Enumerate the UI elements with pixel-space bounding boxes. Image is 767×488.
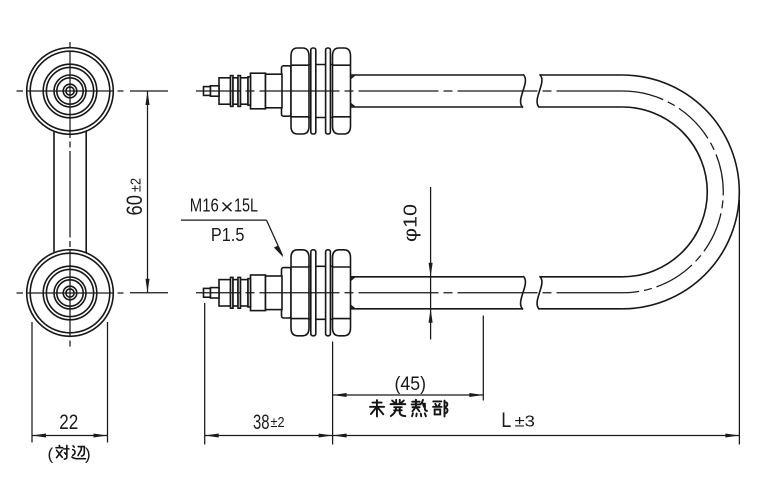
38 dim line: [205, 435, 333, 437]
leader arrow: [274, 246, 284, 258]
svg-text:±2: ±2: [271, 414, 285, 431]
38 arrow right: [319, 433, 333, 437]
tube seen edge-on between the two bosses: [53, 100, 55, 285]
bottom boss: thread inner: [46, 269, 93, 316]
svg-text:M16: M16: [190, 196, 219, 216]
phi10 arrow down: [429, 263, 433, 277]
svg-text:(45): (45): [395, 373, 427, 395]
U-bend outer arc: [622, 75, 739, 309]
bottom tube upper edge (right of break): [540, 276, 623, 278]
top tube upper edge (right of break): [540, 74, 623, 76]
top boss: outer circle: [27, 48, 114, 135]
38 extension left (pin tip): [204, 303, 206, 445]
60 dim arrow up: [145, 91, 149, 105]
kanji NETSU (heat): [412, 400, 427, 416]
22 dim line: [32, 435, 108, 437]
45 extension right: [482, 316, 484, 401]
top tube upper edge (left of break): [351, 74, 524, 76]
top fitting assembly: [204, 48, 357, 134]
45 arrow left: [333, 393, 347, 397]
60 dim extension bottom: [130, 292, 168, 294]
top boss: insulator ring outer: [54, 75, 86, 107]
22 arrow right: [94, 433, 108, 437]
top boss: pin circle: [63, 84, 77, 98]
bottom tube upper edge (left of break): [351, 276, 524, 278]
L dim line: [333, 435, 740, 437]
bottom boss: outer circle: [27, 250, 114, 337]
38/L shared extension (nut face): [332, 342, 334, 445]
svg-text:): ): [85, 445, 91, 464]
bottom tube break cap left: [521, 276, 526, 309]
top boss horizontal centerline: [17, 90, 124, 92]
bottom boss: pin tip circle: [66, 289, 74, 297]
L arrow left: [333, 433, 347, 437]
svg-text:60: 60: [122, 195, 147, 216]
bottom boss: insulator ring inner: [57, 280, 83, 306]
svg-text:P1.5: P1.5: [211, 225, 245, 245]
60 dim line: [147, 91, 149, 293]
kanji TAI (pair): [56, 445, 69, 459]
bottom assembly centerline: [196, 292, 622, 294]
leader line: [267, 220, 283, 255]
bottom boss: insulator ring outer: [54, 277, 86, 309]
bottom tube break cap right: [537, 276, 542, 309]
bottom boss: chamfer circle: [30, 253, 110, 333]
kanji BU (part): [433, 401, 447, 417]
top boss: thread inner: [46, 67, 93, 114]
svg-text:15L: 15L: [234, 196, 258, 216]
top tube lower edge (left of break): [351, 106, 524, 108]
bottom boss horizontal centerline: [17, 292, 124, 294]
60 dim arrow down: [145, 279, 149, 293]
svg-text:L: L: [501, 409, 511, 432]
60 dim extension top: [130, 90, 168, 92]
kanji HEN (side): [72, 446, 85, 459]
45 arrow right: [469, 393, 483, 397]
bend centerline arc: [622, 91, 723, 293]
label underline: [181, 219, 267, 221]
L arrow right: [725, 433, 739, 437]
svg-text:±2: ±2: [128, 178, 145, 192]
svg-text:38: 38: [253, 411, 270, 434]
top boss: chamfer circle: [30, 51, 110, 131]
phi10 arrow up: [429, 309, 433, 323]
top assembly centerline: [196, 90, 622, 92]
svg-text:(: (: [48, 445, 54, 464]
22 extension left: [31, 322, 33, 443]
svg-text:φ10: φ10: [401, 204, 421, 242]
phi10 dim line: [430, 187, 432, 340]
L extension right (bend apex): [738, 200, 740, 445]
svg-text:±3: ±3: [515, 414, 536, 431]
45 dim line: [333, 394, 484, 396]
top tube break cap left: [521, 74, 526, 107]
top tube lower edge (right of break): [540, 106, 623, 108]
22 arrow left: [32, 433, 46, 437]
bottom fitting assembly: [204, 250, 357, 336]
front view vertical centerline: [69, 42, 71, 349]
svg-text:22: 22: [59, 411, 78, 434]
top boss: pin tip circle: [66, 87, 74, 95]
22 extension right: [107, 322, 109, 443]
U-bend inner arc: [622, 107, 707, 277]
top boss: insulator ring inner: [57, 78, 83, 104]
bottom boss: pin circle: [63, 286, 77, 300]
top boss: thread outer: [43, 64, 97, 118]
bottom boss: thread outer: [43, 266, 97, 320]
kanji HATSU (emit): [391, 400, 406, 416]
bottom tube lower edge (right of break): [540, 308, 623, 310]
38 arrow left: [205, 433, 219, 437]
non-heated-length label kanji MI (not yet): [370, 400, 384, 416]
top tube break cap right: [537, 74, 542, 107]
bottom tube lower edge (left of break): [351, 308, 524, 310]
